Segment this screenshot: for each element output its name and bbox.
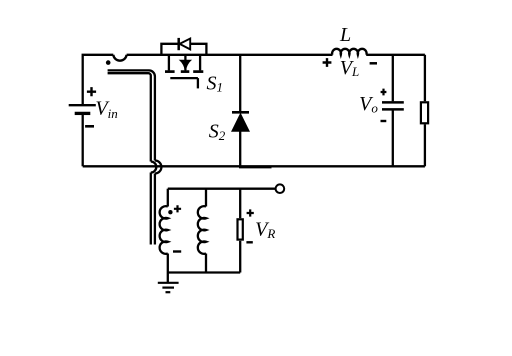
svg-text:VR: VR: [255, 218, 275, 241]
core: outer line (horizontal then right vertical): [108, 70, 155, 160]
transistor S1 channel bar middle segment: [181, 70, 190, 73]
core: inner line (horizontal then left vertical): [108, 73, 151, 161]
inductor middle winding bumps: [198, 206, 206, 254]
svg-text:VL: VL: [340, 57, 359, 79]
transistor S1 gate tick: [197, 78, 199, 88]
battery Vin plate short: [75, 112, 91, 115]
label + of secondary: [174, 205, 181, 212]
transistor S1 arrow head: [180, 60, 191, 70]
svg-text:Vo: Vo: [359, 93, 378, 115]
wire: S2 branch upper: [239, 55, 241, 111]
wire: capacitor branch lower: [392, 111, 394, 167]
core: outer line hop over bottom wire: [155, 161, 162, 174]
terminal circle VR output: [276, 184, 285, 193]
label - of VL: [370, 62, 377, 65]
svg-text:L: L: [339, 24, 351, 46]
svg-text:S1: S1: [207, 73, 224, 95]
wire: middle winding top lead: [205, 189, 207, 207]
diode S2 triangle: [232, 114, 248, 131]
transistor S1 gate line: [170, 77, 198, 79]
label - of secondary: [173, 250, 181, 252]
inductor L humps: [332, 49, 366, 55]
wire: secondary winding bottom lead: [167, 254, 169, 273]
wire: left vertical top segment: [83, 55, 114, 104]
ground stub: [167, 273, 169, 283]
resistor load: [421, 102, 428, 123]
capacitor Vo bottom plate: [382, 108, 404, 111]
node: polarity dot secondary: [168, 210, 172, 214]
diode D1 triangle: [180, 39, 191, 50]
diode D1 cathode bar: [177, 38, 180, 50]
wire: load branch upper: [424, 55, 426, 101]
resistor VR: [238, 219, 243, 239]
label + of Vin: [87, 87, 96, 96]
wire: load branch lower: [424, 124, 426, 166]
wire: lower bottom rail: [168, 271, 240, 273]
transistor S1 channel bar left segment: [165, 70, 175, 73]
wire: top rail right of L: [366, 54, 425, 56]
wire: VR branch upper: [239, 189, 241, 219]
capacitor Vo top plate: [382, 101, 404, 104]
label - of Vo: [381, 120, 387, 122]
core: outer line lower segment: [154, 174, 156, 245]
wire: secondary winding top lead: [167, 189, 169, 207]
wire: middle winding bottom lead: [205, 254, 207, 273]
ground bar 2: [162, 287, 174, 289]
label - of VR: [246, 241, 252, 243]
label + of Vo: [381, 89, 387, 96]
wire: lower top rail: [168, 188, 276, 190]
inductor secondary winding bumps: [160, 206, 168, 254]
wire: bottom rail thick segment: [239, 167, 272, 169]
wire: top rail from cup to right corner: [127, 54, 333, 56]
transistor S1 right stub: [199, 55, 201, 71]
node: polarity dot primary: [106, 60, 111, 65]
wire: S2 branch lower: [239, 131, 241, 167]
svg-text:Vin: Vin: [95, 97, 117, 121]
winding cup (primary single-turn dip): [113, 55, 126, 61]
diode D1 loop (body diode of S1): [161, 44, 206, 55]
label + of VR: [247, 209, 254, 216]
core: inner line lower segment: [150, 173, 152, 245]
wire: capacitor branch upper: [392, 55, 394, 102]
wire: left vertical bottom segment: [82, 113, 84, 166]
core: inner line hop over bottom wire: [151, 162, 157, 173]
diode S2 cathode bar: [232, 111, 249, 114]
battery Vin plate long: [69, 104, 96, 106]
svg-text:S2: S2: [209, 121, 226, 143]
transistor S1 channel bar right segment: [193, 70, 203, 73]
ground bar 3: [166, 291, 171, 293]
transistor S1 left stub: [168, 55, 170, 71]
ground bar 1: [158, 282, 179, 284]
label - of Vin: [85, 125, 94, 128]
wire: VR branch lower: [239, 241, 241, 273]
transistor S1 arrow stem: [184, 55, 186, 71]
wire: bottom rail: [83, 165, 425, 167]
label + of VL: [323, 58, 332, 67]
